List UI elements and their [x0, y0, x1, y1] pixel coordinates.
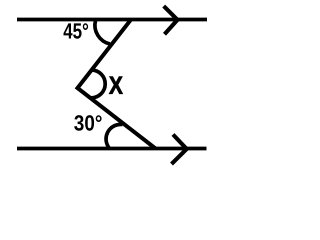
- geometry diagram: two parallel lines cut by a zigzag transversal with angle labels: [0, 0, 231, 176]
- zigzag transversal segment top-to-middle and middle-to-bottom: [78, 20, 156, 149]
- top parallel line: [17, 18, 207, 22]
- 45-degree angle arc at top vertex: [95, 21, 110, 45]
- bottom line arrow head: [172, 135, 187, 165]
- X angle arc at middle vertex: [91, 70, 105, 98]
- bottom parallel line: [17, 147, 207, 151]
- label X: [109, 77, 123, 94]
- 30-degree angle arc at bottom vertex: [106, 124, 123, 148]
- label 30 degrees: [74, 115, 101, 131]
- top line arrow head: [164, 6, 178, 34]
- label 45 degrees: [64, 23, 89, 39]
